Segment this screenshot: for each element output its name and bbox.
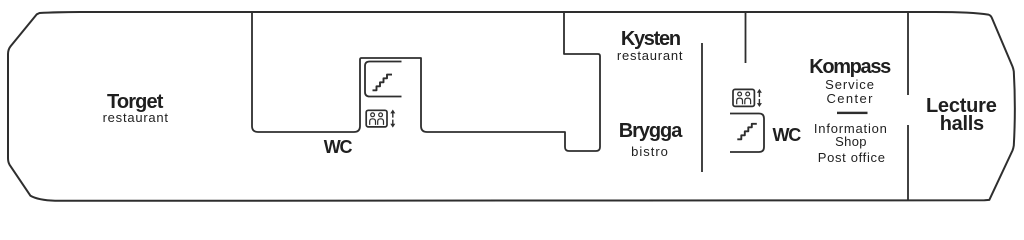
Kompass separator dash <box>837 112 868 114</box>
wall: Kompass / Lecture halls divider (lower) <box>907 125 909 200</box>
stairs icon S2 steps <box>737 124 757 140</box>
label: halls <box>812 113 1024 136</box>
label: Lecture <box>811 95 1024 118</box>
elevator icon E2 person 2 <box>746 92 750 96</box>
label: Shop <box>701 134 1001 149</box>
label: Service <box>700 77 1000 92</box>
stairs icon S1 box (open right) <box>365 62 402 97</box>
elevator icon E1 person 1 <box>371 113 375 117</box>
wall: Kompass / Lecture halls divider (upper) <box>907 12 909 95</box>
label: Torget restaurant <box>0 110 286 125</box>
label: Center <box>700 91 1000 106</box>
label: Kysten restaurant <box>500 48 800 63</box>
label: Kompass <box>700 56 1000 79</box>
elevator icon E2 box <box>733 89 754 106</box>
label: Information <box>701 121 1001 136</box>
elevator icon E2 up/down arrows <box>758 92 760 104</box>
stairs icon S1 steps <box>373 75 393 91</box>
label: Kysten <box>500 28 800 51</box>
elevator icon E1 person 2 <box>379 113 383 117</box>
label: Brygga bistro <box>500 144 800 159</box>
label: Post office <box>702 150 1002 165</box>
stairs icon S2 box (open left) <box>730 114 764 153</box>
wall: Brygga / Kompass partition <box>701 43 703 172</box>
wall: Kysten / Kompass separator (top) <box>745 12 747 63</box>
elevator icon E1 box <box>366 110 387 127</box>
label: Torget <box>0 91 285 114</box>
label: WC right <box>636 125 936 146</box>
interior wall: Torget / corridor / stairs enclosure / Brygga divider <box>252 12 600 151</box>
elevator icon E2 person 1 <box>738 92 742 96</box>
hull outline <box>8 12 1015 201</box>
label: WC left <box>188 137 488 158</box>
elevator icon E1 up/down arrows <box>392 113 394 125</box>
label: Brygga <box>500 120 800 143</box>
